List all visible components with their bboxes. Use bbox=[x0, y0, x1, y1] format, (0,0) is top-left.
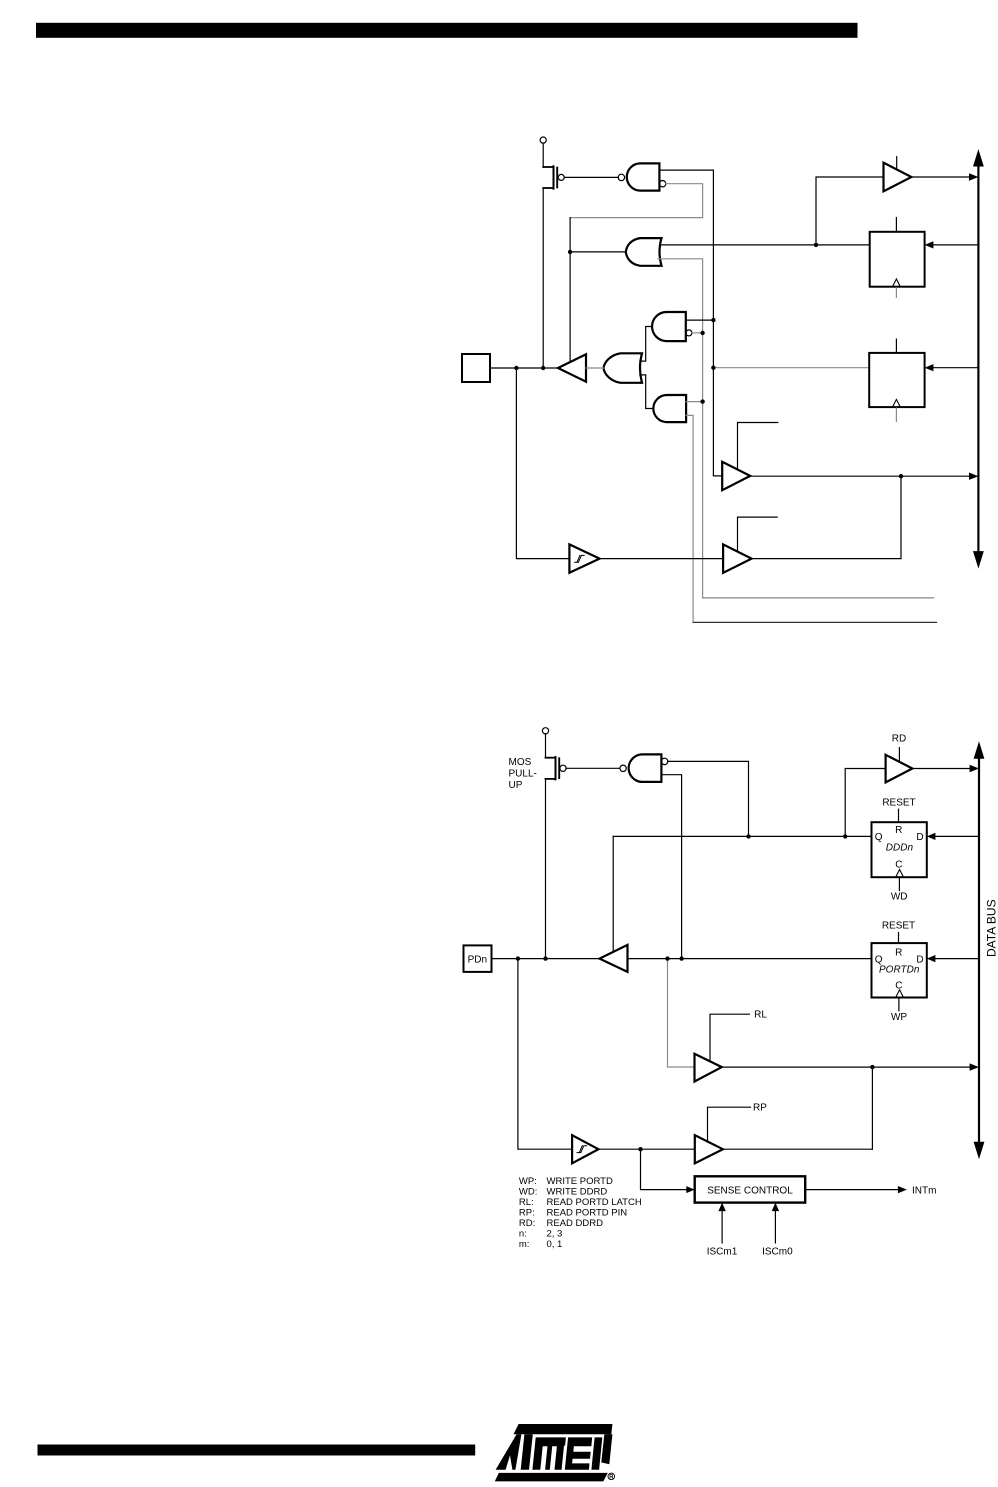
pull-up top terminal bbox=[542, 728, 548, 734]
buffer U11 bbox=[723, 544, 752, 572]
node bbox=[814, 243, 818, 247]
wire bbox=[723, 1148, 873, 1150]
svg-text:SENSE CONTROL: SENSE CONTROL bbox=[707, 1185, 793, 1196]
wire bbox=[722, 1066, 971, 1068]
svg-text:RP: RP bbox=[753, 1103, 767, 1114]
wire bbox=[545, 734, 547, 758]
wire bbox=[542, 143, 544, 167]
buffer U12 bbox=[722, 462, 750, 490]
wire bbox=[518, 959, 572, 1150]
wire bbox=[545, 779, 547, 959]
wire bbox=[933, 367, 978, 369]
svg-text:R: R bbox=[895, 825, 902, 836]
buffer U16 (RL) bbox=[695, 1054, 722, 1082]
buffer U3 bbox=[884, 163, 912, 192]
wire INTm bbox=[805, 1189, 898, 1191]
wire bbox=[628, 958, 872, 960]
svg-text:WD:: WD: bbox=[519, 1187, 537, 1198]
node bbox=[711, 366, 715, 370]
node bbox=[568, 250, 572, 254]
node bbox=[711, 318, 715, 322]
wire bbox=[659, 169, 713, 171]
nand U13 bbox=[620, 765, 626, 771]
svg-text:C: C bbox=[895, 980, 902, 991]
svg-text:R: R bbox=[895, 947, 902, 958]
wire bbox=[871, 1067, 873, 1149]
node bbox=[638, 1147, 642, 1151]
node bbox=[543, 956, 547, 960]
or gate U6 bbox=[604, 353, 643, 383]
node bbox=[700, 331, 704, 335]
sense control box bbox=[695, 1176, 806, 1202]
nand U1 bbox=[618, 174, 624, 180]
svg-text:DATA BUS: DATA BUS bbox=[985, 899, 998, 957]
d-flipflop U5 bbox=[869, 353, 924, 407]
svg-text:PULL-: PULL- bbox=[509, 769, 537, 780]
wire bbox=[933, 244, 978, 246]
node bbox=[746, 834, 750, 838]
footer rule bbox=[38, 1445, 476, 1456]
svg-text:PDn: PDn bbox=[468, 954, 487, 965]
wire bbox=[613, 835, 871, 837]
schmitt trigger U10 bbox=[569, 544, 599, 572]
wire bbox=[569, 218, 571, 363]
logo letter M bbox=[532, 1437, 566, 1469]
svg-text:PORTDn: PORTDn bbox=[879, 964, 920, 975]
d-flipflop U4 bbox=[870, 232, 925, 287]
svg-text:2, 3: 2, 3 bbox=[547, 1229, 563, 1240]
logo letter L bbox=[591, 1437, 602, 1469]
wire bbox=[660, 244, 870, 246]
wire bbox=[490, 367, 558, 369]
wire bbox=[693, 621, 936, 623]
svg-text:MOS: MOS bbox=[509, 757, 532, 768]
svg-text:RL:: RL: bbox=[519, 1197, 534, 1208]
wire bbox=[492, 958, 600, 960]
wire bbox=[713, 170, 722, 476]
svg-text:RD: RD bbox=[892, 734, 906, 745]
pin box bbox=[462, 354, 490, 382]
d-flipflop DDDn bbox=[872, 822, 927, 877]
logo letter A bbox=[496, 1434, 522, 1470]
wire bbox=[542, 188, 544, 368]
wire bbox=[911, 176, 970, 178]
wire bbox=[752, 476, 901, 558]
wire ISCm1 bbox=[721, 1211, 723, 1243]
wire bbox=[641, 1149, 688, 1189]
logo bottom bar bbox=[495, 1473, 608, 1482]
wire bbox=[935, 958, 979, 960]
transistor M2 (MOS pull-up) bbox=[555, 757, 557, 779]
wire WD bbox=[898, 877, 900, 890]
logo letter T bbox=[521, 1434, 533, 1470]
schmitt trigger U17 bbox=[572, 1135, 598, 1163]
svg-text:ISCm1: ISCm1 bbox=[707, 1246, 738, 1257]
node bbox=[514, 366, 518, 370]
svg-text:WRITE PORTD: WRITE PORTD bbox=[547, 1176, 613, 1187]
svg-text:INTm: INTm bbox=[912, 1185, 936, 1196]
logo top bar bbox=[514, 1424, 613, 1434]
transistor M1 (MOS pull-up) bbox=[553, 166, 555, 188]
wire bbox=[586, 367, 604, 369]
node bbox=[665, 956, 669, 960]
data bus line bbox=[977, 158, 979, 560]
svg-text:Q: Q bbox=[875, 832, 883, 843]
svg-text:DDDn: DDDn bbox=[886, 842, 914, 853]
wire bbox=[668, 761, 749, 836]
wire bbox=[600, 558, 724, 560]
wire bbox=[516, 368, 569, 559]
wire bbox=[686, 415, 693, 622]
node bbox=[700, 399, 704, 403]
header rule bbox=[36, 23, 858, 38]
wire bbox=[564, 176, 618, 178]
wire bbox=[935, 835, 979, 837]
data bus line bbox=[978, 750, 980, 1151]
svg-text:WD: WD bbox=[891, 892, 908, 903]
pull-up top terminal bbox=[540, 137, 546, 143]
logo registered mark bbox=[608, 1473, 615, 1480]
svg-text:WRITE DDRD: WRITE DDRD bbox=[547, 1187, 608, 1198]
wire ISCm0 bbox=[774, 1211, 776, 1243]
node bbox=[541, 366, 545, 370]
wire bbox=[750, 475, 970, 477]
svg-text:READ DDRD: READ DDRD bbox=[547, 1218, 604, 1229]
and gate U7 bbox=[652, 312, 686, 341]
node bbox=[899, 474, 903, 478]
svg-text:READ PORTD PIN: READ PORTD PIN bbox=[547, 1208, 628, 1219]
wire bbox=[570, 251, 626, 253]
svg-text:RESET: RESET bbox=[882, 920, 915, 931]
svg-text:RP:: RP: bbox=[519, 1208, 535, 1219]
node bbox=[843, 834, 847, 838]
svg-text:WP:: WP: bbox=[519, 1176, 537, 1187]
wire bbox=[661, 775, 681, 959]
svg-text:RD:: RD: bbox=[519, 1218, 535, 1229]
inverter U15 bbox=[600, 945, 628, 972]
svg-text:D: D bbox=[916, 832, 923, 843]
svg-text:WP: WP bbox=[891, 1012, 907, 1023]
wire bbox=[566, 767, 620, 769]
svg-text:RESET: RESET bbox=[882, 798, 915, 809]
wire bbox=[668, 959, 695, 1067]
svg-text:n:: n: bbox=[519, 1229, 527, 1240]
wire bbox=[570, 184, 703, 218]
logo letter E bbox=[565, 1437, 592, 1469]
wire bbox=[713, 367, 869, 369]
node bbox=[516, 956, 520, 960]
svg-text:0, 1: 0, 1 bbox=[547, 1239, 563, 1250]
buffer U18 (RP) bbox=[695, 1135, 723, 1163]
legend bbox=[519, 1176, 642, 1250]
wire bbox=[658, 259, 934, 598]
d-flipflop PORTDn bbox=[872, 943, 927, 997]
wire bbox=[912, 768, 970, 770]
svg-text:ISCm0: ISCm0 bbox=[762, 1246, 793, 1257]
inverter U9 bbox=[558, 354, 586, 381]
node bbox=[870, 1065, 874, 1069]
wire bbox=[612, 836, 614, 951]
svg-text:READ PORTD LATCH: READ PORTD LATCH bbox=[547, 1197, 642, 1208]
wire WP bbox=[898, 998, 900, 1011]
pin box PDn bbox=[464, 945, 492, 972]
svg-text:C: C bbox=[895, 859, 902, 870]
node bbox=[679, 956, 683, 960]
svg-text:m:: m: bbox=[519, 1239, 530, 1250]
and gate U8 bbox=[653, 395, 686, 422]
svg-text:RL: RL bbox=[754, 1010, 767, 1021]
wire bbox=[816, 177, 884, 245]
buffer U14 (RD) bbox=[886, 755, 913, 783]
svg-text:UP: UP bbox=[509, 780, 523, 791]
wire bbox=[845, 769, 885, 837]
or gate U2 bbox=[626, 238, 662, 266]
wire bbox=[598, 1148, 694, 1150]
